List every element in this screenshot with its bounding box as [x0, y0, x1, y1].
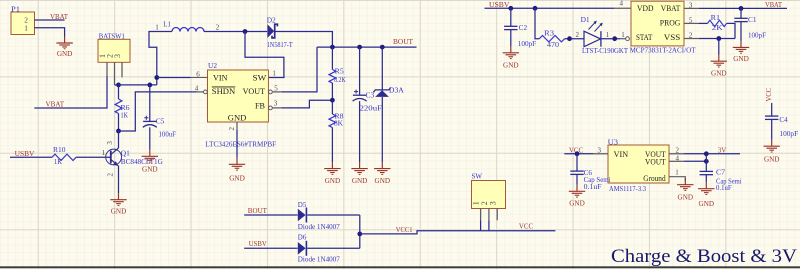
- svg-text:C4: C4: [779, 115, 787, 124]
- svg-text:GND: GND: [57, 49, 73, 58]
- wire VOUT pin4 to 3V rail: [684, 160, 706, 162]
- svg-text:2: 2: [216, 24, 220, 32]
- wire VBAT rail to C1: [740, 8, 742, 18]
- switch BATSW1: [98, 31, 130, 62]
- wire C1 to ground: [740, 22, 742, 41]
- wire rail to C3: [359, 47, 361, 95]
- ground GND (U2): [229, 158, 245, 183]
- svg-text:VBAT: VBAT: [661, 4, 681, 13]
- svg-text:STAT: STAT: [636, 33, 652, 42]
- svg-text:SHDN: SHDN: [212, 87, 236, 96]
- svg-text:VIN: VIN: [614, 150, 629, 159]
- svg-text:1: 1: [606, 31, 610, 39]
- wire C6 to ground: [576, 174, 578, 184]
- svg-text:VBAT: VBAT: [46, 99, 65, 108]
- svg-text:D3A: D3A: [389, 86, 404, 95]
- svg-text:GND: GND: [229, 173, 245, 182]
- pin 3 of U2 (FB): [269, 99, 282, 109]
- wire BATSW1 pin2 jog to node: [115, 84, 119, 86]
- wire USBV rail: [485, 7, 615, 9]
- ground GND (P1): [56, 37, 72, 59]
- svg-text:1: 1: [24, 23, 28, 32]
- wire SW pin2 to VCC run: [488, 221, 490, 231]
- inductor L1: [163, 20, 204, 32]
- svg-text:D6: D6: [298, 233, 307, 242]
- svg-text:4: 4: [620, 0, 624, 8]
- svg-text:VSS: VSS: [664, 33, 681, 42]
- svg-text:2: 2: [689, 32, 693, 40]
- svg-text:L1: L1: [163, 20, 171, 29]
- pin 2 of U2 (GND): [228, 122, 237, 131]
- LED D1 LTST-C190GKT: [581, 15, 629, 55]
- ground GND (C5): [142, 150, 158, 174]
- capacitor C1 100pF: [734, 15, 766, 39]
- wire SW riser to U2 SW pin: [245, 32, 284, 78]
- IC U4 MCP73831T-2ACI/OT: [630, 1, 696, 54]
- pin 2 of BATSW1: [105, 54, 114, 85]
- wire SHDN tap to U2 SHDN pin: [119, 92, 197, 131]
- junction SHDN tap: [116, 129, 121, 134]
- svg-text:1K: 1K: [121, 110, 129, 119]
- svg-text:1: 1: [675, 169, 679, 177]
- svg-text:R1: R1: [711, 13, 721, 22]
- capacitor C3 220uF: [353, 90, 382, 113]
- svg-text:D1: D1: [581, 15, 590, 24]
- svg-text:4: 4: [195, 85, 199, 93]
- diode D2 1N5817-T: [267, 15, 293, 49]
- svg-text:AMS1117-3.3: AMS1117-3.3: [609, 184, 646, 193]
- pin 2 of SW: [480, 201, 489, 220]
- junction node at R6 top: [116, 83, 121, 88]
- svg-text:U3: U3: [608, 137, 619, 146]
- svg-text:1K: 1K: [54, 157, 62, 166]
- transistor Q1 BC848CLT1G: [106, 148, 163, 166]
- wire rail to D3A cathode: [381, 47, 383, 90]
- svg-text:USBV: USBV: [249, 239, 267, 248]
- ground GND (D3A): [374, 162, 390, 185]
- diode D5 1N4007: [298, 200, 340, 231]
- wire USBV to D6 anode: [244, 247, 297, 249]
- junction VIN tee: [154, 75, 159, 80]
- wire diode tie vertical: [359, 215, 361, 248]
- pin 5 of U2 (VOUT): [269, 84, 282, 94]
- wire R5 to FB node: [331, 83, 333, 100]
- wire PROG to R1: [699, 22, 708, 24]
- ground GND (C7): [698, 182, 714, 208]
- svg-text:Diode 1N4007: Diode 1N4007: [298, 255, 340, 264]
- svg-text:PROG: PROG: [660, 19, 681, 28]
- wire D1 cathode to STAT: [601, 38, 620, 40]
- svg-text:100pF: 100pF: [518, 39, 536, 48]
- svg-text:MCP73831T-2ACI/OT: MCP73831T-2ACI/OT: [630, 46, 696, 55]
- svg-text:R3: R3: [544, 28, 554, 37]
- svg-text:GND: GND: [111, 206, 127, 215]
- wire BOUT rail: [317, 46, 417, 48]
- ground GND (R8): [324, 162, 340, 185]
- junction R5 column: [330, 45, 335, 50]
- svg-text:VOUT: VOUT: [243, 87, 266, 96]
- pin 1 of SW: [472, 201, 481, 220]
- svg-text:GND: GND: [678, 193, 694, 202]
- svg-text:Charge & Boost & 3V: Charge & Boost & 3V: [611, 246, 797, 267]
- wire FB node to R8: [331, 100, 333, 114]
- svg-text:VDD: VDD: [637, 4, 654, 13]
- svg-text:8K: 8K: [334, 119, 344, 128]
- svg-text:100pF: 100pF: [748, 30, 766, 39]
- wire VBAT pin to VBAT label: [699, 7, 787, 9]
- svg-text:1: 1: [155, 24, 159, 32]
- svg-text:C2: C2: [519, 23, 528, 32]
- ground GND (U3): [677, 178, 693, 201]
- wire node to C5: [149, 85, 151, 121]
- wire VOUT to 3V label: [684, 153, 740, 155]
- wire rail to R3: [535, 8, 539, 38]
- regulator U3 AMS1117-3.3: [608, 137, 669, 193]
- svg-text:VBAT: VBAT: [50, 12, 68, 21]
- svg-text:100uF: 100uF: [159, 130, 177, 139]
- ground GND (VSS): [711, 55, 727, 78]
- wire node to VIN riser: [119, 84, 157, 86]
- wire VCC to C6: [576, 154, 578, 171]
- svg-text:Diode 1N4007: Diode 1N4007: [298, 222, 340, 231]
- diode D3A (zener): [373, 86, 404, 97]
- svg-text:0.1uF: 0.1uF: [584, 182, 602, 191]
- junction SW riser tap: [243, 29, 248, 34]
- capacitor C2 100pF: [504, 23, 536, 48]
- wire L1 to D2 anode: [204, 31, 267, 33]
- pin 3 of BATSW1: [113, 54, 122, 77]
- svg-text:3: 3: [598, 147, 602, 155]
- ground GND (C1): [733, 41, 749, 63]
- svg-text:C7: C7: [716, 168, 725, 177]
- svg-text:2: 2: [576, 31, 580, 39]
- wire SW pin1 to VCC run: [480, 221, 482, 231]
- svg-text:GND: GND: [142, 164, 158, 173]
- svg-text:D2: D2: [267, 15, 276, 24]
- svg-text:1: 1: [272, 70, 276, 78]
- svg-text:3: 3: [488, 201, 497, 205]
- svg-text:VCC: VCC: [764, 88, 773, 102]
- junction C1 tap: [739, 6, 744, 11]
- svg-text:VCC1: VCC1: [396, 225, 413, 234]
- ground GND (C6): [569, 185, 585, 208]
- wire rail to R5: [331, 47, 333, 69]
- junction C5 tap: [147, 83, 152, 88]
- wire VIN to node: [157, 77, 191, 79]
- junction C3 column: [357, 45, 362, 50]
- svg-text:P1: P1: [11, 5, 20, 14]
- svg-text:GND: GND: [711, 68, 727, 77]
- svg-text:3: 3: [274, 99, 278, 107]
- junction VSS ground tap: [716, 36, 721, 41]
- connector P1: [11, 5, 35, 35]
- junction pin4 tie: [704, 159, 709, 164]
- pin 1 of U3 (Ground): [669, 169, 685, 181]
- wire VCC to C4: [771, 103, 773, 116]
- svg-text:GND: GND: [764, 155, 780, 164]
- ground GND (C3): [351, 162, 367, 185]
- svg-text:3: 3: [689, 2, 693, 10]
- junction FB node: [330, 98, 335, 103]
- svg-text:Ground: Ground: [643, 174, 665, 183]
- wire P1 pin1 to ground: [35, 28, 65, 37]
- pin 4 of U2 (SHDN): [195, 85, 208, 94]
- svg-text:FB: FB: [255, 102, 265, 111]
- wire VCC to U3 VIN: [564, 153, 593, 155]
- wire Q1 emitter to ground: [118, 166, 120, 193]
- wire D2 cathode to BOUT rail corner: [275, 32, 332, 48]
- wire USBV to R10: [10, 156, 52, 158]
- wire Q1 collector: [118, 131, 120, 148]
- pin 3 of U3 (VIN): [593, 147, 608, 155]
- wire R3 to D1 anode: [565, 38, 584, 40]
- junction D3A column: [380, 45, 385, 50]
- svg-text:2: 2: [228, 127, 236, 131]
- pin 2 of U3 (VOUT): [669, 147, 684, 155]
- svg-text:GND: GND: [569, 198, 585, 207]
- svg-text:GND: GND: [733, 54, 749, 63]
- svg-text:VBAT: VBAT: [765, 0, 782, 9]
- resistor R5 8.2K: [329, 67, 346, 84]
- switch SW: [472, 171, 506, 208]
- svg-text:8.2K: 8.2K: [334, 75, 346, 84]
- wire BOUT to D5 anode: [244, 214, 297, 216]
- pin 1 of U4 (STAT): [620, 31, 629, 41]
- svg-text:BATSW1: BATSW1: [99, 31, 125, 40]
- wire C5 to ground: [149, 127, 151, 150]
- wire rail to C2: [510, 8, 512, 26]
- svg-text:220uF: 220uF: [360, 103, 383, 112]
- svg-text:BOUT: BOUT: [248, 206, 267, 215]
- pin 3 of U4 (VBAT): [684, 2, 699, 10]
- svg-text:GND: GND: [503, 61, 519, 70]
- svg-text:5: 5: [689, 17, 693, 25]
- svg-text:LTC3426ES6#TRMPBF: LTC3426ES6#TRMPBF: [205, 139, 276, 148]
- svg-text:2: 2: [676, 147, 680, 155]
- svg-text:D5: D5: [298, 200, 307, 209]
- ground GND (Q1 emitter): [110, 193, 126, 215]
- junction R3 tap: [533, 6, 538, 11]
- svg-text:C5: C5: [156, 116, 165, 125]
- pin 5 of U4 (PROG): [684, 17, 699, 25]
- wire C2 to ground: [510, 30, 512, 47]
- svg-text:3V: 3V: [718, 145, 727, 154]
- wire U2 GND pin to ground: [236, 130, 238, 158]
- svg-text:GND: GND: [699, 199, 715, 208]
- wire node down to R6: [118, 85, 120, 99]
- wire FB to divider tap: [281, 100, 332, 108]
- svg-text:GND: GND: [325, 176, 341, 185]
- svg-text:1: 1: [621, 31, 625, 39]
- svg-text:USBV: USBV: [15, 149, 35, 158]
- wire R10 to Q1 base: [76, 156, 111, 158]
- svg-text:LTST-C190GKT: LTST-C190GKT: [582, 46, 628, 55]
- wire VSS to ground: [699, 38, 735, 40]
- pin 4 of U3 (VOUT 2nd): [669, 155, 684, 163]
- resistor R8 8K: [329, 111, 344, 127]
- wire D5 cathode to VCC1 node: [307, 214, 360, 216]
- wire VOUT to BOUT rail riser: [281, 47, 317, 92]
- svg-text:VOUT: VOUT: [645, 158, 666, 167]
- wire C3 to ground: [359, 101, 361, 162]
- svg-text:3: 3: [113, 54, 122, 58]
- junction at STAT wire: [612, 36, 617, 41]
- svg-text:2: 2: [107, 173, 115, 177]
- wire P1 pin2 to VBAT label: [35, 19, 65, 21]
- svg-text:GND: GND: [352, 176, 368, 185]
- pin 1 of BATSW1: [98, 54, 107, 76]
- ground GND (C4): [764, 140, 780, 164]
- wire C4 to ground: [771, 119, 773, 139]
- capacitor C7 Cap Semi 0.1uF: [700, 168, 742, 193]
- svg-text:2K: 2K: [712, 23, 724, 32]
- svg-text:SW: SW: [253, 74, 267, 83]
- svg-text:1N5817-T: 1N5817-T: [267, 40, 293, 49]
- resistor R3 470: [539, 28, 564, 49]
- wire VBAT to BATSW1 pin 1: [34, 76, 107, 108]
- op-amp/IC U2 LTC3426ES6#TRMPBF: [205, 61, 276, 149]
- svg-text:BOUT: BOUT: [393, 37, 413, 46]
- svg-text:4: 4: [676, 155, 680, 163]
- svg-text:470: 470: [547, 40, 559, 49]
- capacitor C5 100uF: [143, 116, 176, 139]
- svg-text:100pF: 100pF: [779, 129, 798, 138]
- wire VCC1 to VCC run: [360, 231, 556, 234]
- pin 2 of U4 (VSS): [684, 32, 699, 40]
- junction at D1 anode: [567, 36, 572, 41]
- wire R6 to Q1 collector node: [118, 114, 120, 132]
- wire C7 to ground: [705, 175, 707, 183]
- ground GND (C2): [503, 46, 519, 69]
- svg-text:VIN: VIN: [213, 74, 228, 83]
- wire R8 to ground: [331, 128, 333, 163]
- svg-text:1: 1: [102, 149, 106, 157]
- resistor R10 1K: [52, 145, 76, 166]
- svg-text:C3: C3: [366, 90, 375, 99]
- capacitor C6 Cap Semi 0.1uF: [570, 168, 610, 191]
- junction VCC1 tap: [357, 232, 362, 237]
- capacitor C4 100pF: [765, 115, 798, 138]
- pin 4 of U4 (VDD): [614, 0, 631, 8]
- junction C6 tap: [575, 151, 580, 156]
- resistor R6 1K: [115, 99, 130, 119]
- resistor R1 2K: [708, 13, 727, 32]
- pin 6 of U2 (VIN): [191, 70, 208, 78]
- svg-text:C1: C1: [748, 15, 757, 24]
- svg-text:3: 3: [106, 141, 114, 145]
- wire L1 pin1 staircase to VIN node: [149, 32, 172, 85]
- pin 3 of SW: [488, 201, 497, 220]
- wire D3A anode to ground: [381, 97, 383, 162]
- wire 3V rail to C7: [705, 161, 707, 171]
- junction 3V rail: [704, 151, 709, 156]
- svg-text:R10: R10: [53, 145, 66, 154]
- svg-text:SW: SW: [472, 171, 483, 180]
- svg-text:GND: GND: [375, 176, 391, 185]
- svg-text:U2: U2: [208, 61, 217, 70]
- svg-text:GND: GND: [228, 114, 247, 123]
- svg-text:0.1uF: 0.1uF: [716, 183, 732, 192]
- svg-text:5: 5: [274, 84, 278, 92]
- wire D6 cathode to VCC1 node: [307, 247, 360, 249]
- junction C2 tap: [508, 6, 513, 11]
- wire R1 to VSS net: [727, 23, 735, 38]
- sheet bottom border: [0, 266, 800, 268]
- svg-text:6: 6: [196, 70, 200, 78]
- diode D6 1N4007: [298, 233, 340, 264]
- svg-text:VCC: VCC: [519, 221, 533, 230]
